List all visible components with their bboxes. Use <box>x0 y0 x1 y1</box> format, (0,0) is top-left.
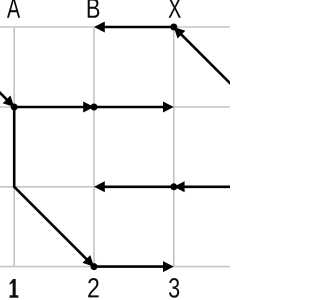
grid horizontal line row A (y=27) <box>0 26 230 28</box>
grid horizontal line row 4 (y=266.6) <box>0 266 230 268</box>
label A (column header) <box>7 0 20 18</box>
node dot (94,266.6) <box>91 263 98 270</box>
grid horizontal line row 2 (y=107) <box>0 106 230 108</box>
wire: arrow I from node (3,3) left to (2,3) <box>94 181 174 192</box>
node dot (173.8,186.8) <box>170 183 177 190</box>
label 1 (x tick, with foot serif) <box>10 279 19 298</box>
wire: arrow D from node X left to B <box>94 22 174 33</box>
wire: diagonal arrow A entering from upper left into node (1,2) <box>0 91 14 107</box>
node dot (14.2,107) <box>11 104 18 111</box>
node dot (94,107) <box>91 104 98 111</box>
grid vertical line col 2 (x=94) <box>93 27 95 267</box>
node X dot (173.8,27) <box>170 24 177 31</box>
wire: arrow B from node (1,2) right to (2,2) <box>14 102 94 113</box>
grid vertical line col 1 (x=14.2) <box>13 27 15 267</box>
label X (column header) <box>169 0 181 18</box>
label 3 (x tick) <box>169 278 179 298</box>
wire: path F vertical then diagonal from node (1,2) down to node (2,4) <box>14 107 94 267</box>
wire: diagonal arrow E entering from lower right into node X <box>174 27 232 85</box>
wire: arrow H entering from right into node (3,3) <box>174 181 232 192</box>
wire: arrow G from node (2,4) right to (3,4) <box>94 261 174 272</box>
grid vertical line col 3 (x=173.8) <box>173 27 175 267</box>
grid horizontal line row 3 (y=186.8) <box>0 186 230 188</box>
wire: arrow C from node (2,2) right to (3,2) <box>94 102 174 113</box>
label B (column header) <box>88 0 100 18</box>
label 2 (x tick) <box>88 278 99 297</box>
